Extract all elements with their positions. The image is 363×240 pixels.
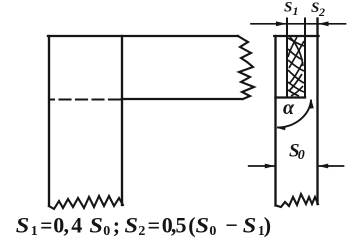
svg-text:2: 2 (318, 5, 325, 19)
svg-text:S: S (89, 213, 103, 238)
right strip outer left edge (274, 36, 276, 206)
dimension line S1 S2 (251, 23, 346, 25)
svg-text:1: 1 (31, 224, 38, 239)
svg-text:0: 0 (103, 224, 110, 239)
right strip outer right edge (316, 19, 318, 205)
svg-text:S: S (196, 213, 210, 238)
right break zigzag of left plate (238, 36, 254, 99)
weld hatching curves (288, 37, 304, 96)
svg-text:α: α (283, 97, 295, 119)
bevel inner right edge with extension tick (304, 19, 306, 98)
bottom break zigzag of left plate (49, 196, 123, 209)
formula line (16, 213, 271, 240)
svg-text:0: 0 (298, 148, 305, 163)
arrowhead S1 left (276, 21, 287, 26)
left plate inner vertical edge (121, 36, 123, 205)
svg-text:;: ; (113, 213, 120, 238)
left plate top edge (48, 35, 238, 37)
bevel bottom edge (276, 96, 306, 98)
svg-text:5: 5 (176, 213, 187, 238)
right strip top edge (274, 35, 318, 37)
arrowhead of angle arc upper end (308, 100, 314, 109)
svg-text:S: S (16, 213, 29, 238)
bottom break zigzag of right strip (276, 194, 318, 207)
arrowhead S2 right (318, 21, 328, 26)
svg-text:S: S (284, 0, 292, 16)
left plate left edge (48, 36, 50, 206)
svg-text:0: 0 (209, 224, 216, 239)
angle dimension arc (278, 101, 311, 128)
svg-text:S: S (125, 213, 139, 238)
svg-text:=: = (148, 213, 161, 238)
hidden dashed line (49, 98, 122, 100)
svg-text:): ) (264, 213, 271, 238)
S0 dimension line left part (249, 165, 274, 167)
arrowhead S0 right (318, 164, 328, 169)
svg-text:−: − (225, 213, 238, 238)
S0 dimension line right part (319, 165, 344, 167)
svg-text:2: 2 (138, 224, 145, 239)
bevel inner left edge with extension tick (286, 19, 288, 98)
svg-text:4: 4 (71, 213, 82, 238)
svg-text:=: = (40, 213, 52, 238)
svg-text:S: S (243, 213, 256, 238)
left plate mid horizontal edge (122, 98, 242, 100)
arrowhead S0 left (265, 164, 275, 169)
arrowhead of angle arc lower end (277, 126, 287, 131)
svg-text:1: 1 (293, 4, 299, 18)
svg-text:,: , (64, 213, 70, 238)
